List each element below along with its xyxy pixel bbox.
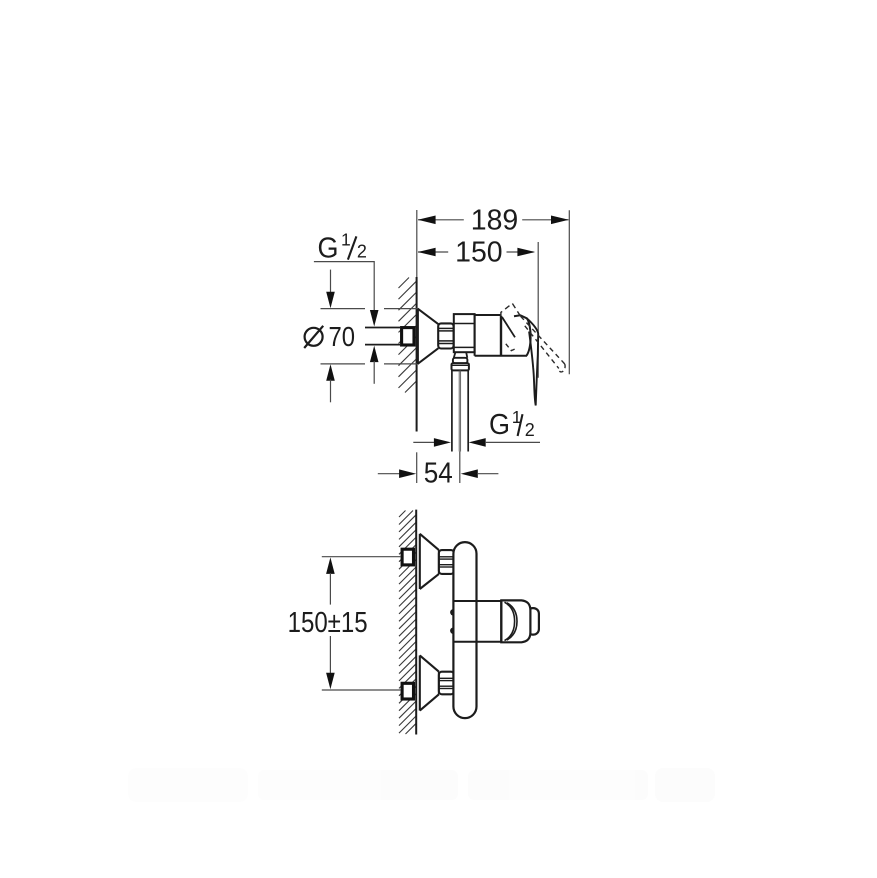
svg-text:2: 2 [357, 241, 367, 261]
extension line 189 right [568, 210, 570, 374]
svg-text:2: 2 [525, 420, 535, 440]
lever blade (closed position, pointing down) [527, 318, 538, 405]
cartridge section [475, 314, 501, 316]
lower supply square (bottom view) [402, 683, 413, 699]
svg-text:1: 1 [341, 229, 351, 249]
diameter 70 reference lines [321, 309, 418, 364]
body capsule (bottom view) [453, 542, 476, 718]
upper union nut (bottom view) [439, 550, 454, 574]
svg-text:189: 189 [471, 205, 519, 237]
svg-text:70: 70 [329, 321, 356, 352]
supply union square in wall [402, 328, 414, 345]
rear mounting tabs on body [450, 609, 456, 615]
lower union nut (bottom view) [439, 672, 454, 695]
diameter 70 dimension arrows [330, 270, 332, 294]
outlet neck [454, 352, 456, 358]
outlet pipe down [452, 370, 468, 451]
supply pipe through wall [365, 327, 400, 329]
escutcheon cone (top view) [418, 309, 439, 364]
wall extension line (up to dims) [416, 210, 418, 279]
extension lines to squares [322, 556, 401, 558]
extension line 150 right [537, 242, 539, 378]
label diameter 70 [305, 328, 323, 346]
dimension 150±15 [326, 557, 335, 574]
lever hub edge inside dome [502, 317, 515, 337]
dome / handle escutcheon (top view) [500, 316, 502, 356]
dimension 189 [418, 219, 569, 221]
valve body back section [454, 314, 475, 352]
handle dome (bottom view) [501, 600, 530, 642]
wall surface line (bottom view) [415, 510, 417, 735]
svg-text:G: G [489, 409, 510, 441]
handle stub (pointing at viewer) [527, 608, 539, 635]
svg-text:54: 54 [424, 458, 453, 490]
union nut (top view) [438, 323, 453, 348]
outlet collar [453, 358, 468, 363]
wall hatching (bottom view) [399, 511, 416, 735]
G1/2 leader: underline, corner down, arrows to pipe [314, 262, 374, 312]
faint watermark [128, 768, 715, 802]
dimension 150 [418, 251, 534, 253]
svg-text:G: G [318, 232, 339, 264]
lower escutcheon cone (bottom view) [420, 655, 439, 710]
upper supply square (bottom view) [402, 549, 413, 565]
wall hatching (top view) [399, 278, 417, 393]
cartridge section lines (bottom view) [453, 600, 501, 602]
svg-text:150: 150 [455, 237, 503, 269]
outlet G1/2 dimension arrows [413, 441, 434, 443]
dimension 54 [416, 452, 418, 483]
svg-text:150±15: 150±15 [288, 607, 368, 639]
wall surface line [416, 277, 418, 432]
dome face arcs [505, 602, 515, 640]
upper escutcheon cone (bottom view) [420, 534, 439, 589]
dashed handle (alternate position) [501, 303, 565, 372]
